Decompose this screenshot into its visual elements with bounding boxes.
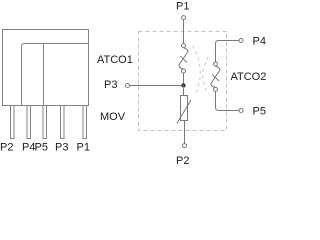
svg-text:P5: P5 bbox=[253, 106, 266, 118]
wire P1 to ATCO1 bbox=[183, 20, 185, 44]
svg-text:ATCO2: ATCO2 bbox=[231, 71, 267, 83]
dashed module boundary bbox=[139, 32, 227, 131]
wire P3 to node A bbox=[130, 85, 184, 87]
package body outline bbox=[3, 30, 89, 106]
junction node A bbox=[181, 83, 185, 87]
package inner disc outline bbox=[22, 44, 89, 106]
package inner divider line bbox=[43, 44, 45, 106]
svg-text:P5: P5 bbox=[35, 142, 48, 154]
terminal P4 bbox=[239, 39, 243, 43]
svg-text:P4: P4 bbox=[253, 36, 266, 48]
svg-text:P1: P1 bbox=[176, 1, 189, 13]
thermal cutoff ATCO1 bbox=[179, 44, 188, 73]
svg-text:P1: P1 bbox=[77, 142, 90, 154]
thermal coupling dashed arc left bbox=[193, 46, 200, 93]
svg-text:P2: P2 bbox=[0, 142, 13, 154]
thermal cutoff ATCO2 bbox=[211, 62, 220, 91]
terminal P3 bbox=[126, 84, 130, 88]
wire MOV to P2 bbox=[184, 121, 186, 144]
svg-text:P3: P3 bbox=[55, 142, 68, 154]
pin 5 (P1) bbox=[83, 106, 87, 139]
svg-text:P2: P2 bbox=[176, 155, 189, 164]
svg-text:MOV: MOV bbox=[100, 111, 126, 123]
pin 3 (P5) bbox=[43, 106, 47, 139]
varistor MOV body bbox=[181, 96, 188, 121]
thermal coupling dashed arc right bbox=[203, 57, 209, 94]
pin 4 (P3) bbox=[61, 106, 65, 139]
svg-text:ATCO1: ATCO1 bbox=[97, 54, 133, 66]
wire ATCO1 to node A bbox=[183, 73, 185, 86]
terminal P5 bbox=[239, 109, 243, 113]
svg-text:P3: P3 bbox=[104, 79, 117, 91]
pin 2 (P4) bbox=[27, 106, 31, 139]
terminal P1 bbox=[182, 16, 186, 20]
svg-text:P4: P4 bbox=[22, 142, 35, 154]
terminal P2 bbox=[183, 144, 187, 148]
wire node A to MOV bbox=[183, 86, 185, 96]
varistor MOV slash bbox=[177, 100, 191, 123]
wire P4 to ATCO2 bbox=[216, 41, 240, 63]
pin 1 (P2) bbox=[11, 106, 15, 139]
wire ATCO2 to P5 bbox=[216, 91, 240, 110]
